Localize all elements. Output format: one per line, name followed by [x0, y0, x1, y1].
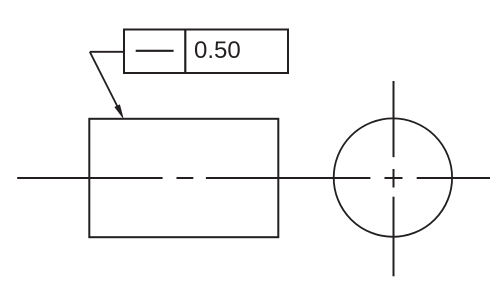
- horizontal centerline long dash left: [17, 177, 162, 179]
- leader arrowhead: [115, 105, 123, 118]
- feature control frame outer box: [124, 30, 288, 74]
- horizontal centerline center dash of circle: [385, 177, 403, 179]
- feature control frame cell divider: [184, 30, 186, 74]
- vertical centerline bottom segment: [393, 197, 395, 277]
- straightness symbol: [136, 50, 174, 52]
- horizontal centerline short dash: [177, 177, 194, 179]
- leader line horizontal segment: [90, 51, 124, 53]
- horizontal centerline long dash right: [417, 177, 490, 179]
- vertical centerline center dash: [393, 169, 395, 188]
- end view circle: [334, 118, 452, 236]
- vertical centerline top segment: [393, 81, 395, 157]
- horizontal centerline long dash middle: [206, 177, 371, 179]
- side view rectangle: [89, 119, 278, 237]
- svg-text:0.50: 0.50: [194, 37, 241, 64]
- leader line diagonal segment: [90, 52, 121, 113]
